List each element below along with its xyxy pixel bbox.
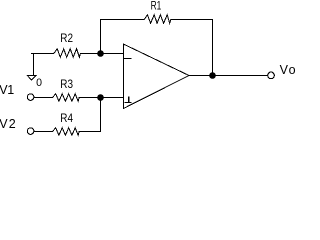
svg-text:R4: R4 bbox=[60, 111, 73, 125]
svg-text:R2: R2 bbox=[60, 31, 73, 45]
svg-text:R3: R3 bbox=[60, 77, 73, 91]
svg-text:R1: R1 bbox=[151, 0, 162, 12]
svg-text:0: 0 bbox=[36, 77, 42, 89]
svg-text:V1: V1 bbox=[0, 83, 14, 97]
svg-text:V2: V2 bbox=[0, 117, 16, 131]
svg-text:Vo: Vo bbox=[280, 63, 296, 77]
